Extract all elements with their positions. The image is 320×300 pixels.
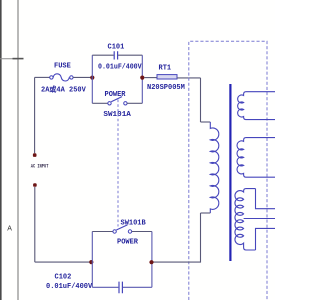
switch SW101A contact right (124, 102, 127, 105)
AC INPUT terminal L (33, 153, 37, 157)
wire: switch row right (127, 102, 142, 104)
wire: bottom loop left vertical (91, 232, 93, 288)
wire: top loop right vertical (141, 55, 143, 103)
wire: AC neutral terminal down (34, 187, 36, 262)
svg-text:POWER: POWER (117, 239, 139, 247)
wire: bottom loop bottom edge right (123, 286, 152, 288)
fuse F1 terminal circle left (50, 76, 53, 79)
AC INPUT terminal N (33, 183, 37, 187)
svg-text:A: A (7, 226, 12, 233)
wire: S3 bottom lead step (256, 228, 276, 250)
capacitor C102 plates (119, 282, 122, 294)
wire: bottom loop bottom edge left (92, 286, 118, 288)
switch SW101A contact left (108, 102, 111, 105)
thermistor RT1 body (157, 75, 177, 79)
wire: primary top step (201, 121, 211, 123)
wire: fuse to node A (73, 76, 92, 78)
wire: top loop left vertical (91, 55, 93, 103)
wire: top loop top edge right (118, 54, 142, 56)
transformer T1 secondary winding S2 (237, 138, 275, 178)
svg-text:N20SP005M: N20SP005M (147, 84, 185, 92)
svg-text:C101: C101 (108, 44, 125, 52)
svg-text:0.01uF/400V: 0.01uF/400V (46, 283, 93, 291)
wire: AC line top terminal up to fuse row (34, 77, 36, 153)
wire: S3 top lead step (256, 189, 276, 209)
node B junction dot (140, 76, 144, 80)
svg-text:0.01uF/400V: 0.01uF/400V (98, 64, 142, 72)
ganged switch linkage dashed line (117, 100, 119, 227)
wire: primary top lead down (200, 78, 202, 122)
transformer T1 secondary winding S1 (238, 92, 275, 120)
switch SW101B contact left (113, 230, 116, 233)
svg-text:C102: C102 (55, 274, 72, 282)
wire: S3 middle tap (244, 218, 275, 220)
node D junction dot (bottom right) (149, 260, 153, 264)
wire: switch row left (92, 102, 108, 104)
switch SW101B contact right (128, 230, 131, 233)
transformer T1 core (229, 84, 231, 261)
wire: node B to RT1 (144, 77, 157, 79)
wire: bottom loop right vertical (151, 232, 153, 288)
wire: bottom switch row left (92, 231, 113, 233)
sheet border inner vertical rule (17, 0, 18, 300)
svg-text:FUSE: FUSE (54, 63, 71, 71)
fuse F1 terminal circle right (70, 76, 73, 79)
node C junction dot (bottom left) (89, 260, 93, 264)
wire: RT1 to transformer primary (177, 77, 201, 79)
capacitor C101 plates (114, 51, 117, 59)
wire: top loop top edge left (92, 54, 113, 56)
wire: bottom switch row right (132, 231, 152, 233)
wire: primary bottom step (201, 212, 211, 214)
svg-text:POWER: POWER (105, 91, 127, 99)
switch SW101A lever (111, 97, 122, 102)
wire: primary bottom lead down (152, 213, 201, 262)
svg-text:SW101B: SW101B (121, 220, 147, 228)
wire: bottom row to loop (35, 261, 92, 263)
transformer T1 primary winding (210, 122, 219, 213)
node A junction dot (90, 76, 94, 80)
svg-text:RT1: RT1 (159, 65, 172, 73)
wire: fuse row horizontal to fuse (35, 76, 50, 78)
sheet border frame left edge (0, 0, 2, 300)
svg-text:AC INPUT: AC INPUT (31, 164, 49, 170)
fuse F1 body (53, 74, 69, 81)
zone divider tick (0, 58, 19, 60)
switch SW101B lever (116, 225, 127, 230)
svg-text:2A或4A 250V: 2A或4A 250V (41, 85, 87, 95)
transformer dashed enclosure (189, 41, 267, 300)
transformer T1 secondary winding S3 (tapped) (235, 189, 256, 250)
